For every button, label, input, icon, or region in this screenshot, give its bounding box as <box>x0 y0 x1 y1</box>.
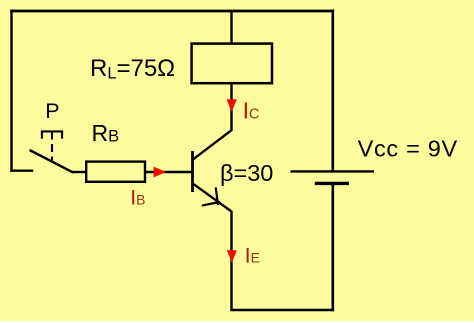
svg-text:β=30: β=30 <box>220 160 273 186</box>
svg-text:IC: IC <box>243 97 260 123</box>
current arrow IB <box>154 167 167 178</box>
switch fixed contact <box>12 169 33 171</box>
transistor collector lead <box>193 83 232 160</box>
pushbutton link dashed <box>51 132 53 163</box>
svg-text:RL=75Ω: RL=75Ω <box>90 55 175 82</box>
svg-text:Vcc = 9V: Vcc = 9V <box>358 136 458 162</box>
wire right upper <box>331 11 334 171</box>
transistor emitter lead <box>193 183 232 310</box>
switch blade <box>31 151 73 173</box>
transistor base bar <box>191 151 194 192</box>
svg-text:P: P <box>45 99 59 123</box>
emitter arrowhead <box>203 188 220 205</box>
current arrow IC <box>227 99 237 112</box>
svg-text:IB: IB <box>130 186 145 210</box>
wire RL top <box>230 11 232 44</box>
wire left <box>10 11 12 171</box>
battery positive plate <box>291 170 375 172</box>
svg-text:RB: RB <box>92 120 120 146</box>
resistor RB <box>86 162 145 182</box>
wire right lower <box>331 185 334 310</box>
resistor RL <box>192 44 272 84</box>
bottom fade strip <box>0 319 474 323</box>
svg-text:IE: IE <box>245 243 260 267</box>
pushbutton actuator bar <box>42 131 62 138</box>
battery negative plate <box>315 182 349 185</box>
wire RB to base <box>145 171 192 173</box>
current arrow IE <box>227 250 237 263</box>
wire top <box>12 10 333 13</box>
wire blade to RB <box>72 171 87 173</box>
wire bottom <box>232 309 333 311</box>
